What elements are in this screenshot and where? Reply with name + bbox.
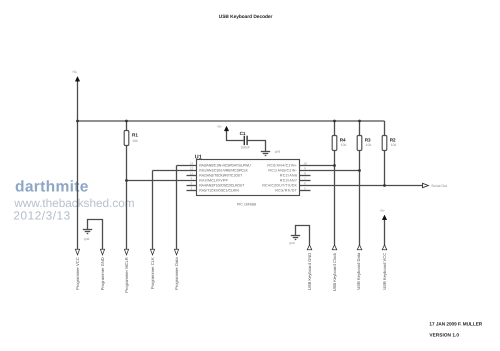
- power +5v arrow at USB Keyboard VCC: [379, 208, 387, 219]
- junction top rail at R4: [333, 120, 336, 123]
- svg-text:RC4/C2OUT/TX/CK: RC4/C2OUT/TX/CK: [262, 184, 297, 188]
- U1 left pin labels: [199, 164, 251, 193]
- wire R4 / USB Keyboard Clock column: [334, 121, 336, 136]
- resistor R3: [357, 136, 371, 151]
- ground at C1: [261, 152, 270, 156]
- serial out arrow: [423, 183, 448, 188]
- ground at Programmer GND: [83, 230, 92, 234]
- wire R2 column: [384, 121, 386, 136]
- connector arrow Programmer GND: [100, 249, 105, 290]
- svg-text:USB Keyboard Clock: USB Keyboard Clock: [332, 252, 337, 291]
- svg-text:C1: C1: [240, 131, 246, 136]
- wire USB Keyboard VCC: [384, 220, 386, 245]
- junction top rail at VCC column: [76, 120, 79, 123]
- svg-text:10k: 10k: [366, 143, 372, 147]
- IC U1 PIC16F688 body: [195, 154, 300, 206]
- wire Programmer Data: [176, 166, 178, 250]
- svg-text:+5v: +5v: [72, 70, 78, 74]
- svg-text:RA3/MCLR/VPP: RA3/MCLR/VPP: [199, 179, 228, 183]
- svg-text:U1: U1: [195, 154, 202, 160]
- U1 left pin stubs: [187, 176, 197, 191]
- connector arrow Programmer MCLR: [124, 249, 129, 293]
- svg-text:Programmer GND: Programmer GND: [100, 257, 105, 290]
- power +5v arrow at C1: [216, 124, 228, 130]
- svg-text:RA2/AN2/T0CKI/INT/C1OUT: RA2/AN2/T0CKI/INT/C1OUT: [199, 174, 243, 178]
- svg-text:Serial Out: Serial Out: [431, 184, 447, 188]
- wire top +5v rail: [78, 120, 385, 122]
- wire Programmer GND branch: [88, 220, 103, 250]
- wire U1 pin10 to R4 column: [300, 165, 335, 167]
- wire USB Keyboard GND branch: [296, 226, 310, 245]
- svg-text:10: 10: [303, 161, 307, 165]
- svg-text:2012/3/13: 2012/3/13: [13, 209, 70, 223]
- svg-text:10k: 10k: [341, 143, 347, 147]
- ground at USB Keyboard GND: [291, 236, 300, 240]
- svg-text:RA5/T1CKI/OSC1/CLKIN: RA5/T1CKI/OSC1/CLKIN: [199, 189, 239, 193]
- svg-text:+5v: +5v: [216, 124, 222, 128]
- power +5v arrow top left: [72, 70, 80, 81]
- svg-text:10k: 10k: [391, 143, 397, 147]
- svg-text:gnd: gnd: [289, 241, 295, 245]
- U1 right pin numbers 10 9 8 7 6 5: [303, 161, 307, 190]
- svg-text:VERSION 1.0: VERSION 1.0: [429, 333, 459, 338]
- svg-text:RC3/AN7: RC3/AN7: [280, 179, 297, 183]
- U1 right pin labels: [262, 164, 297, 193]
- wire U1 pin9 to R3 column: [300, 170, 360, 172]
- wire R1/MCLR column: [126, 121, 128, 131]
- wire R3 / USB Keyboard Data column: [359, 121, 361, 136]
- svg-text:R4: R4: [340, 137, 346, 142]
- svg-text:13: 13: [190, 161, 194, 165]
- U1 right pin stubs: [300, 176, 311, 191]
- connector arrow Programmer VCC: [75, 249, 80, 290]
- resistor R1: [124, 131, 138, 146]
- wire C1 to gnd: [248, 141, 266, 152]
- svg-text:USB Keyboard VCC: USB Keyboard VCC: [382, 253, 387, 290]
- connector arrow USB Keyboard VCC: [382, 245, 387, 290]
- svg-text:gnd: gnd: [84, 237, 90, 241]
- svg-text:+5v: +5v: [379, 208, 385, 212]
- connector arrow Programmer CLK: [150, 249, 155, 289]
- resistor R4: [332, 136, 346, 151]
- svg-text:RC0/AN4/C2IN+: RC0/AN4/C2IN+: [267, 164, 297, 168]
- svg-text:RC5/RX/DT: RC5/RX/DT: [275, 189, 297, 193]
- svg-text:Programmer VCC: Programmer VCC: [75, 257, 80, 290]
- junction pin9/R3: [358, 169, 361, 172]
- svg-text:Programmer MCLR: Programmer MCLR: [124, 257, 129, 293]
- svg-text:12: 12: [190, 166, 194, 170]
- connector arrow USB Keyboard Data: [356, 245, 362, 290]
- svg-text:RC1/AN5/C2IN-: RC1/AN5/C2IN-: [268, 169, 297, 173]
- wire C1 +5v feed: [227, 130, 244, 140]
- svg-text:RA1/AN1/C1IN-/VREF/ICSPCLK: RA1/AN1/C1IN-/VREF/ICSPCLK: [199, 169, 248, 173]
- junction top rail at R3: [358, 120, 361, 123]
- svg-text:11: 11: [190, 171, 193, 175]
- svg-text:USB Keyboard Data: USB Keyboard Data: [356, 252, 361, 290]
- svg-text:gnd: gnd: [275, 150, 281, 154]
- connector arrow USB Keyboard GND: [307, 245, 312, 290]
- svg-text:RC2/AN6: RC2/AN6: [280, 174, 297, 178]
- svg-text:100nF: 100nF: [241, 146, 251, 150]
- junction pin10/R4: [333, 164, 336, 167]
- junction top rail at R1: [125, 120, 128, 123]
- svg-text:R2: R2: [390, 137, 396, 142]
- svg-text:RA0/AN0/C1IN+/ICSPDAT/ULPWU: RA0/AN0/C1IN+/ICSPDAT/ULPWU: [199, 164, 251, 168]
- svg-text:USB Keyboard Decoder: USB Keyboard Decoder: [219, 14, 273, 20]
- svg-text:R1: R1: [132, 132, 138, 137]
- wire Programmer CLK: [152, 171, 154, 250]
- connector arrow USB Keyboard Clock: [332, 245, 337, 291]
- wire Programmer VCC column: [77, 81, 79, 249]
- svg-text:R3: R3: [365, 137, 371, 142]
- svg-text:10k: 10k: [132, 139, 138, 143]
- wire MCLR to U1 pin 4: [127, 180, 197, 182]
- connector arrow Programmer Data: [174, 249, 179, 290]
- svg-text:RA4/AN3/T1G/OSC2/CLKOUT: RA4/AN3/T1G/OSC2/CLKOUT: [199, 184, 245, 188]
- svg-text:Programmer CLK: Programmer CLK: [150, 257, 155, 289]
- svg-text:USB Keyboard GND: USB Keyboard GND: [307, 253, 312, 290]
- wire serial out: [300, 185, 423, 187]
- junction serial/R2: [383, 184, 386, 187]
- svg-text:PIC 16F688: PIC 16F688: [237, 202, 256, 206]
- svg-text:17 JAN 2009 F. MULLER: 17 JAN 2009 F. MULLER: [429, 321, 482, 326]
- junction MCLR/R1: [125, 179, 128, 182]
- svg-text:Programmer Data: Programmer Data: [174, 257, 179, 290]
- U1 left pin numbers 13 12 11 4 3 2: [190, 161, 194, 190]
- resistor R2: [382, 136, 396, 151]
- capacitor C1: [240, 131, 251, 150]
